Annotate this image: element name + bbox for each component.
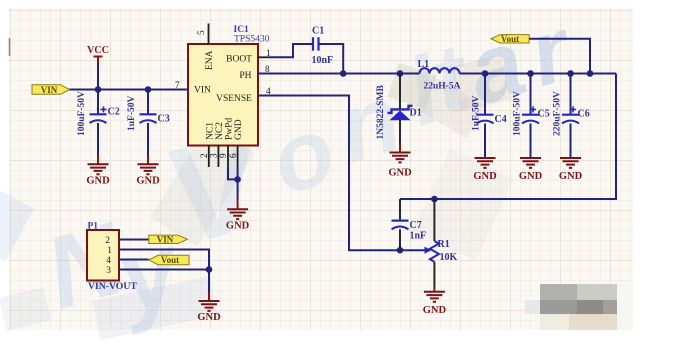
ground GND C5 [519, 158, 543, 182]
svg-text:ENA: ENA [205, 50, 215, 70]
svg-text:PwPd: PwPd [225, 118, 235, 140]
wire C5 branch [530, 74, 532, 158]
svg-text:5: 5 [196, 30, 206, 35]
svg-text:3: 3 [106, 266, 111, 276]
net label VIN [32, 85, 70, 95]
svg-text:GND: GND [86, 176, 110, 187]
wire C6 branch [570, 74, 572, 158]
node junction P1 gnd [206, 266, 213, 273]
diode D1 1N5822-SMB [376, 84, 422, 139]
wire stub at canvas left edge [9, 38, 11, 56]
svg-text:100uF-50V: 100uF-50V [77, 91, 87, 136]
svg-text:C1: C1 [312, 26, 324, 37]
capacitor C5 [513, 91, 550, 136]
pin 2 of P1 [105, 236, 149, 246]
node junction C2 [95, 86, 102, 93]
wire C7 bottom [399, 229, 401, 250]
wire feedback right corner [400, 74, 616, 221]
svg-text:GND: GND [234, 119, 244, 140]
pin 3 NC2 [209, 122, 225, 167]
ground GND D1 [388, 144, 412, 179]
wire VIN label to pin 7 [70, 89, 189, 91]
ground GND C6 [559, 158, 583, 182]
svg-text:2: 2 [105, 236, 110, 246]
svg-text:VIN-VOUT: VIN-VOUT [88, 281, 137, 292]
svg-text:1uF-50V: 1uF-50V [472, 96, 482, 132]
net label VIN (P1) [149, 235, 188, 245]
node junction Vout [587, 70, 594, 77]
wire VSENSE run [258, 96, 400, 251]
ground GND IC [226, 201, 250, 232]
svg-text:220uF-50V: 220uF-50V [553, 91, 563, 136]
svg-text:IC1: IC1 [234, 25, 250, 35]
svg-text:4: 4 [106, 256, 111, 266]
node junction C7 bottom [397, 247, 404, 254]
svg-text:GND: GND [519, 171, 543, 182]
node junction R1 top [431, 196, 438, 203]
net label Vout (P1) [149, 255, 189, 265]
wire C3 branch [147, 90, 149, 157]
svg-text:2: 2 [199, 153, 209, 158]
svg-text:VIN: VIN [157, 235, 174, 245]
ground GND C3 [136, 156, 160, 187]
pin 8 PH [239, 64, 270, 81]
svg-text:GND: GND [423, 305, 447, 316]
capacitor C6 [553, 91, 590, 136]
svg-text:VSENSE: VSENSE [216, 94, 252, 104]
node junction D1 [397, 70, 404, 77]
svg-text:VCC: VCC [87, 45, 109, 56]
wire C4 branch [484, 74, 486, 158]
node junction C4 [482, 70, 489, 77]
capacitor C4 [472, 96, 507, 132]
pin 1 of P1 [107, 246, 209, 270]
svg-text:1nF: 1nF [410, 231, 427, 242]
svg-text:BOOT: BOOT [226, 55, 252, 65]
svg-text:VIN: VIN [41, 85, 58, 95]
svg-text:GND: GND [388, 168, 412, 179]
wire D1 branch [399, 74, 401, 145]
net label Vout (top) [491, 34, 529, 44]
wire BOOT to C1 [268, 44, 312, 57]
pin 1 BOOT [226, 48, 271, 65]
ground GND R1 [423, 288, 447, 316]
svg-text:22uH-5A: 22uH-5A [424, 82, 461, 92]
pin 9 PwPd [218, 118, 234, 167]
svg-text:GND: GND [559, 171, 583, 182]
IC IC1 TPS5430 [188, 25, 270, 146]
resistor R1 10K [425, 199, 458, 288]
svg-text:R1: R1 [438, 239, 450, 250]
connector P1 body [87, 222, 137, 292]
svg-text:Vout: Vout [501, 34, 519, 44]
svg-text:7: 7 [175, 80, 180, 90]
capacitor C3 [127, 96, 170, 132]
ground GND P1 [197, 292, 221, 323]
wire PH rail [258, 73, 616, 75]
svg-text:NC2: NC2 [215, 122, 225, 140]
wire Vout label to rail [529, 39, 590, 74]
svg-text:C7: C7 [410, 220, 422, 231]
capacitor C1 [312, 26, 334, 67]
svg-text:P1: P1 [88, 222, 99, 232]
inductor L1 [418, 59, 461, 92]
svg-text:GND: GND [226, 221, 250, 232]
pin 7 VIN [175, 80, 211, 96]
svg-text:TPS5430: TPS5430 [234, 35, 270, 45]
svg-text:1N5822-SMB: 1N5822-SMB [376, 84, 386, 139]
svg-text:GND: GND [136, 176, 160, 187]
svg-text:PH: PH [239, 71, 251, 81]
svg-text:1: 1 [107, 246, 112, 256]
pin 3 of P1 [106, 266, 209, 276]
svg-text:6: 6 [228, 153, 238, 158]
wire pin9 elbow to pin6 [228, 167, 238, 179]
power port VCC [87, 45, 109, 63]
svg-text:C4: C4 [495, 114, 507, 125]
ground GND C2 [86, 156, 110, 187]
ground GND C4 [473, 158, 497, 182]
svg-text:9: 9 [218, 153, 228, 158]
svg-text:C2: C2 [108, 107, 120, 118]
wire wiper arm [400, 249, 425, 251]
node junction C6 [567, 70, 574, 77]
svg-text:L1: L1 [418, 59, 430, 70]
pin 6 GND [228, 119, 244, 167]
svg-text:Vout: Vout [161, 255, 179, 265]
svg-text:C6: C6 [578, 109, 590, 120]
svg-text:GND: GND [473, 171, 497, 182]
svg-text:C3: C3 [158, 114, 170, 125]
node junction C3 [145, 86, 152, 93]
svg-text:D1: D1 [410, 108, 422, 119]
pin 5 ENA [196, 24, 215, 71]
wire C1 to PH rail [320, 44, 344, 74]
svg-text:1uF-50V: 1uF-50V [127, 96, 137, 132]
pin 2 NC1 [199, 122, 215, 167]
node junction pin6/pin9 [234, 176, 241, 183]
svg-text:GND: GND [197, 312, 221, 323]
node junction C5 [527, 70, 534, 77]
capacitor C2 [77, 91, 120, 136]
svg-text:100uF-50V: 100uF-50V [513, 91, 523, 136]
svg-text:NC1: NC1 [205, 122, 215, 140]
wire pin6 to ground [237, 167, 239, 201]
wire P1 to ground [208, 270, 210, 293]
pin 4 of P1 [106, 256, 149, 266]
svg-text:10nF: 10nF [312, 55, 334, 66]
pin 4 VSENSE [216, 86, 271, 104]
wire VCC to VIN rail [97, 63, 99, 90]
wire C2 branch [97, 90, 99, 157]
svg-text:VIN: VIN [194, 86, 211, 96]
svg-text:C5: C5 [538, 109, 550, 120]
node junction C1/PH [340, 70, 347, 77]
svg-text:3: 3 [209, 153, 219, 158]
svg-text:10K: 10K [440, 252, 458, 263]
capacitor C7 [392, 220, 427, 242]
